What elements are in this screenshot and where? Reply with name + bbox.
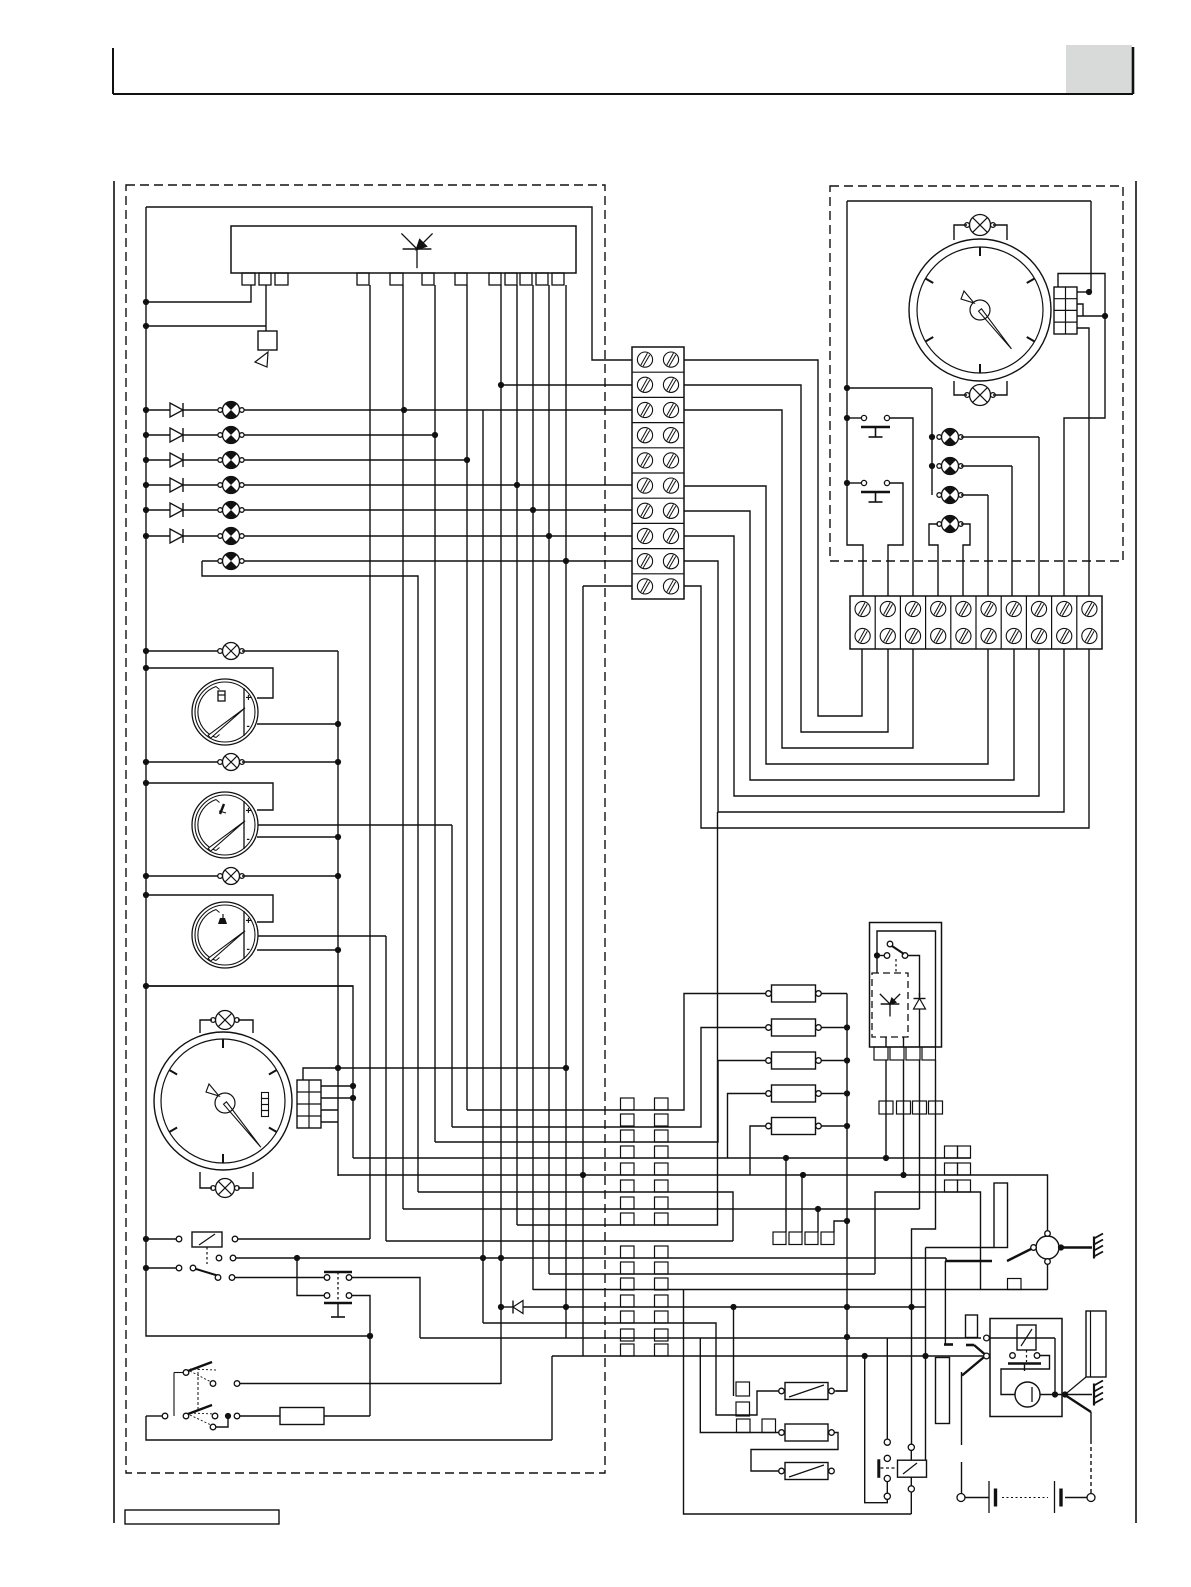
legend box	[125, 1510, 279, 1524]
wire lamp E2 to bus	[242, 761, 338, 763]
wire S4 output	[890, 418, 913, 596]
wire pb feed	[847, 387, 932, 389]
speedo lamp E4 top	[216, 1011, 235, 1030]
wire x353 vertical	[146, 986, 353, 1158]
speedo lamp E5 bracket	[200, 1172, 212, 1188]
relay K1	[192, 1232, 222, 1247]
tachometer hub and needle	[979, 309, 1012, 349]
terminal strip X2	[850, 596, 1102, 649]
flasher SCR branch	[876, 956, 878, 974]
wire row 1142	[435, 1061, 766, 1143]
X1 row3 exit wire	[684, 410, 913, 748]
control unit pin tabs 1-12	[242, 273, 255, 285]
wire row 1192 left	[418, 1192, 733, 1241]
wire key switch loopback	[216, 1416, 228, 1427]
wire S6 feed	[944, 1261, 946, 1344]
plug connector pin c	[762, 1419, 776, 1433]
flasher switch output	[908, 956, 920, 998]
wire pin2 to buzzer	[265, 285, 267, 331]
lamp E1	[223, 643, 240, 660]
wire speedo pin2	[321, 1085, 353, 1087]
wire motor output	[1040, 1394, 1092, 1396]
buzzer H1	[258, 331, 277, 350]
warning lamp H3 row with diode	[146, 434, 435, 436]
wire pin12 vertical	[565, 285, 567, 1338]
pair connector row3	[945, 1180, 958, 1192]
wire row 1126	[452, 1028, 766, 1128]
indicator lamp E9	[942, 458, 959, 475]
tachometer P5 dial	[909, 239, 1051, 381]
wire speedo feed	[146, 985, 353, 987]
fuse F1	[280, 1408, 324, 1425]
wire S2 bottom feed	[297, 1258, 324, 1296]
temp gauge P2	[192, 792, 258, 858]
control unit A1	[231, 226, 576, 273]
lamp E2	[223, 754, 240, 771]
upper fuse box F2	[994, 1183, 1008, 1248]
resistor R2	[772, 1019, 816, 1036]
wire x483 vertical	[482, 410, 484, 1323]
junction bus x353	[143, 983, 149, 989]
glow plug R9	[785, 1463, 828, 1480]
wire lamp E3 to bus	[242, 875, 338, 877]
resistor R3	[772, 1052, 816, 1069]
junction pin1 wire	[143, 299, 149, 305]
wire row 1175	[338, 1175, 1048, 1230]
wire fuel gauge - to bus	[257, 723, 338, 725]
wire X5 row1	[1077, 291, 1091, 293]
SCR tab leads	[885, 1037, 887, 1047]
resistor bus x847	[836, 994, 847, 1392]
wire row 1247	[926, 1247, 995, 1249]
wire R4 right lead	[822, 1093, 848, 1095]
wire row 1323	[483, 1323, 779, 1415]
wire relay feed	[146, 1238, 179, 1240]
starter contact S6 lower blade	[962, 1358, 984, 1376]
tach frame right leg	[1090, 201, 1092, 292]
switch S1 lower throw	[215, 1275, 221, 1281]
wire starter bottom leg	[1047, 1265, 1049, 1290]
wire row 1241	[386, 1240, 733, 1242]
warning lamp H8 row (no diode)	[202, 560, 632, 562]
starter cable upper	[961, 1372, 963, 1445]
supply bus (left vertical)	[145, 207, 147, 1268]
switch S1 upper throw	[216, 1255, 222, 1261]
speedo lamp E5 bottom	[216, 1179, 235, 1198]
warning lamp H2 row with diode	[146, 409, 632, 411]
wire row 1356 horizontal	[552, 1355, 984, 1357]
terminal strip X1	[632, 347, 684, 599]
fuel gauge P1	[192, 679, 258, 745]
wire R8 to R9 link	[751, 1433, 838, 1472]
wire row 1158 R4 branch	[728, 1094, 767, 1159]
wire oil gauge - to bus	[257, 949, 338, 951]
wire X5 row3	[1077, 315, 1105, 317]
ground GND2	[1093, 1384, 1095, 1406]
wire lamp E2 feed	[146, 761, 220, 763]
zener diode V2	[919, 993, 921, 999]
push button S4	[847, 417, 861, 419]
wire pin-c drop	[817, 1209, 819, 1232]
wire S3 upper output	[240, 1383, 501, 1385]
wire S2 top output	[352, 1278, 420, 1339]
wire S1 lower row	[235, 1277, 324, 1279]
wire x452 vertical	[451, 825, 453, 1127]
wire battery feed	[684, 1290, 912, 1514]
wire x386 vertical	[385, 936, 387, 1241]
wire x925 drop	[925, 1248, 927, 1461]
relay K1 actuation link	[206, 1247, 208, 1264]
top feed wire to terminal strip X1	[146, 207, 632, 360]
wire row 1341	[420, 1337, 981, 1339]
wire row 1274	[549, 1273, 875, 1275]
gauge bus x338 vertical	[337, 651, 339, 1176]
wire pin10 vertical	[532, 285, 534, 1290]
K4 contact pair upper	[884, 1439, 890, 1445]
wire K4 contact feed	[886, 1338, 888, 1439]
svg-text:-: -	[247, 834, 250, 845]
instrument panel dashed enclosure	[126, 185, 605, 1473]
page left border	[113, 181, 115, 1523]
wire lamp E1 to bus	[242, 650, 338, 652]
wire K4 coil bottom	[910, 1477, 912, 1486]
solenoid actuation	[1026, 1350, 1028, 1362]
svg-text:-: -	[247, 721, 250, 732]
plug connector pin a	[736, 1382, 750, 1396]
speedometer hub and needle	[224, 1102, 261, 1147]
warning lamp H5 row with diode	[146, 484, 632, 486]
flasher switch contacts	[887, 941, 893, 947]
wire pin7 vertical	[466, 285, 468, 1110]
wire R5 right lead	[822, 1125, 848, 1127]
X1 row7 exit wire	[684, 511, 1014, 780]
wire oil gauge + feed	[146, 895, 273, 922]
wire R1 right lead	[822, 993, 848, 995]
wire speedo pin3	[321, 1097, 353, 1099]
wire pin-b drop	[801, 1175, 803, 1232]
flasher inline connectors	[879, 1101, 893, 1114]
wire R3 right lead	[822, 1060, 848, 1062]
page header rule	[112, 48, 114, 94]
K4 contact pair lower	[884, 1475, 890, 1481]
starter switch blade	[946, 1260, 992, 1262]
page right border	[1135, 181, 1137, 1523]
wire X5 row2	[1077, 304, 1083, 316]
tach lamp E7 bottom	[970, 385, 991, 406]
flasher drop wires	[885, 1060, 887, 1158]
warning lamp H4 row with diode	[146, 459, 467, 461]
wire key common corner	[146, 1416, 552, 1440]
tach frame left leg	[847, 201, 863, 596]
warning lamp H7 row with diode	[146, 535, 632, 537]
solenoid relay coil K3	[1017, 1325, 1036, 1350]
glow plug R7	[785, 1383, 828, 1400]
bus corner to relay row wire	[146, 1268, 370, 1336]
wire to pin1	[146, 285, 251, 302]
wire pin6 vertical	[434, 285, 436, 1142]
starter motor M1	[1015, 1382, 1040, 1407]
wire pin-d jog	[834, 1221, 847, 1232]
diode V1 row 1307	[501, 1306, 513, 1308]
X1 row6 exit wire	[684, 486, 988, 764]
wire row 1209	[403, 1208, 920, 1210]
wire row 1110	[467, 994, 766, 1111]
tach lamp E6 bracket	[954, 225, 967, 240]
switch S1 blade	[196, 1269, 219, 1276]
lamp drop x932	[931, 388, 933, 495]
wire speedo pin5	[321, 1121, 338, 1123]
wire oil gauge sensor	[258, 935, 386, 937]
inline connector column X4 (15 ways)	[621, 1098, 635, 1110]
push button S5	[847, 482, 861, 484]
control unit internal SCR symbol	[401, 233, 417, 249]
K4 actuator	[877, 1459, 880, 1478]
speedometer tick marks	[222, 1039, 224, 1048]
starter pinion G1	[1036, 1236, 1059, 1259]
solenoid contacts	[1010, 1353, 1016, 1359]
X1 row10 left wire	[583, 585, 632, 587]
flasher internal feed	[877, 955, 884, 957]
starter cable lower	[961, 1462, 963, 1494]
junction S2/x370	[367, 1333, 373, 1339]
speedo lamp E4 bracket	[200, 1020, 212, 1033]
wire speedo pin4	[321, 1109, 338, 1111]
wire diode branch to plug connector	[733, 1307, 735, 1396]
resistor block R10	[936, 1358, 950, 1424]
battery G2	[957, 1494, 965, 1502]
wire temp gauge sensor	[258, 824, 452, 826]
switch S1 feed	[146, 1267, 179, 1269]
SCR module dashed box	[872, 973, 908, 1037]
solenoid unit housing	[990, 1319, 1062, 1417]
wire pin11 vertical	[548, 285, 550, 1274]
wire S1 upper row	[236, 1257, 946, 1259]
speedo connector X3	[297, 1080, 321, 1128]
wire row 1175 R5 branch	[750, 1126, 766, 1175]
wire speedo pin1 top	[303, 1068, 566, 1080]
glow plug R8	[785, 1424, 828, 1441]
wire R2 right lead	[822, 1027, 848, 1029]
flasher unit K2 housing	[870, 923, 942, 1048]
indicator lamp E8	[942, 429, 959, 446]
relay K4	[898, 1460, 927, 1477]
plug connector pin a2	[736, 1402, 750, 1416]
wire temp gauge - to bus	[257, 836, 338, 838]
wire pin4 vertical	[369, 285, 371, 1239]
wire lamp E1 feed	[146, 650, 220, 652]
wire 1338 into solenoid	[990, 1337, 1056, 1339]
wire row 1356	[551, 1356, 553, 1440]
wire buzzer feed	[146, 325, 266, 327]
oil gauge P3	[192, 902, 258, 968]
wire fuel gauge + feed	[146, 668, 273, 698]
svg-text:-: -	[247, 944, 250, 955]
wire pin8 vertical	[500, 285, 502, 1384]
odometer window	[262, 1093, 269, 1099]
wire pin-a drop	[785, 1158, 787, 1232]
X1 row2 exit wire	[684, 385, 888, 732]
wire K4 left path	[865, 1356, 888, 1503]
X1 row8 exit wire	[684, 536, 1039, 796]
engine-side dashed enclosure	[830, 186, 1123, 561]
battery cable	[1065, 1395, 1091, 1412]
pair connector row2	[945, 1163, 958, 1175]
X1 row10 exit wire	[684, 586, 1089, 828]
wire contact loop	[1001, 1356, 1050, 1395]
wire pin9 vertical	[516, 285, 518, 1225]
junction buzzer wire	[143, 323, 149, 329]
wire relay output	[238, 1238, 370, 1240]
wire x1105 drop	[1064, 316, 1105, 596]
wire X5 row4	[1077, 328, 1089, 596]
speedometer P4 dial	[154, 1032, 292, 1170]
tachometer tick marks	[979, 247, 981, 256]
wire row 1290	[533, 1289, 1048, 1291]
flasher actuation link	[895, 959, 897, 973]
resistor R4	[772, 1085, 816, 1102]
svg-text:+: +	[246, 916, 252, 927]
tach connector X5	[1054, 287, 1077, 334]
wire fuse to x370	[324, 1415, 370, 1417]
wire S2 bottom output	[352, 1296, 370, 1417]
wire S5 output	[888, 483, 903, 596]
push button S2	[324, 1275, 330, 1281]
wire row 1158	[353, 1157, 971, 1159]
page corner tab (grey)	[1066, 45, 1132, 93]
svg-text:+: +	[246, 806, 252, 817]
flasher pin tabs	[874, 1047, 888, 1060]
wire row 1225	[517, 812, 718, 1225]
wire temp gauge + feed	[146, 783, 273, 810]
wire K4 coil top	[908, 1444, 914, 1450]
wire row 1192 right	[875, 1192, 981, 1290]
key switch S3 pole1	[183, 1370, 189, 1376]
junction bus/relay wire	[367, 1333, 373, 1339]
SCR symbol	[880, 994, 890, 1004]
X1 row1 exit wire	[684, 360, 862, 716]
lamp E3	[223, 868, 240, 885]
X1 row9 exit wire	[684, 561, 1064, 812]
wire S3 lower to fuse	[240, 1415, 280, 1417]
wire R7 return to bus	[835, 1390, 848, 1392]
resistor R1	[772, 985, 816, 1002]
tach inner frame	[847, 200, 1091, 202]
tach lamp E7 bracket	[954, 381, 967, 395]
wire x418 vertical	[202, 561, 418, 1192]
fuse link F3	[966, 1315, 978, 1338]
tach connector top bracket	[1058, 274, 1105, 317]
wire blade feed	[945, 1258, 947, 1261]
wire X1 row2 feed	[501, 384, 632, 386]
plug connector pin b	[737, 1419, 751, 1433]
wire key feed	[146, 1415, 162, 1417]
wire x583 vertical	[582, 586, 584, 1356]
connector on row 1290	[1008, 1279, 1022, 1290]
key switch S3 pole2	[162, 1413, 168, 1419]
wire plug B drop	[700, 1338, 778, 1433]
ground GND1	[1061, 1246, 1092, 1248]
tach lamp E6 top	[970, 215, 991, 236]
wire pin5 vertical	[402, 285, 404, 1209]
key switch link	[174, 1372, 183, 1374]
wire to resistor block	[1065, 1377, 1086, 1395]
starter contact S6 upper	[944, 1343, 953, 1346]
wire lamp E3 feed	[146, 875, 220, 877]
warning lamp H6 row with diode	[146, 509, 632, 511]
pair connector row1	[945, 1146, 958, 1158]
indicator lamp E10	[942, 487, 959, 504]
connector pins row (4)	[773, 1232, 786, 1245]
resistor R5	[772, 1118, 816, 1135]
resistor block R6	[1086, 1311, 1106, 1377]
svg-text:+: +	[246, 693, 252, 704]
indicator lamp E11	[942, 516, 959, 533]
